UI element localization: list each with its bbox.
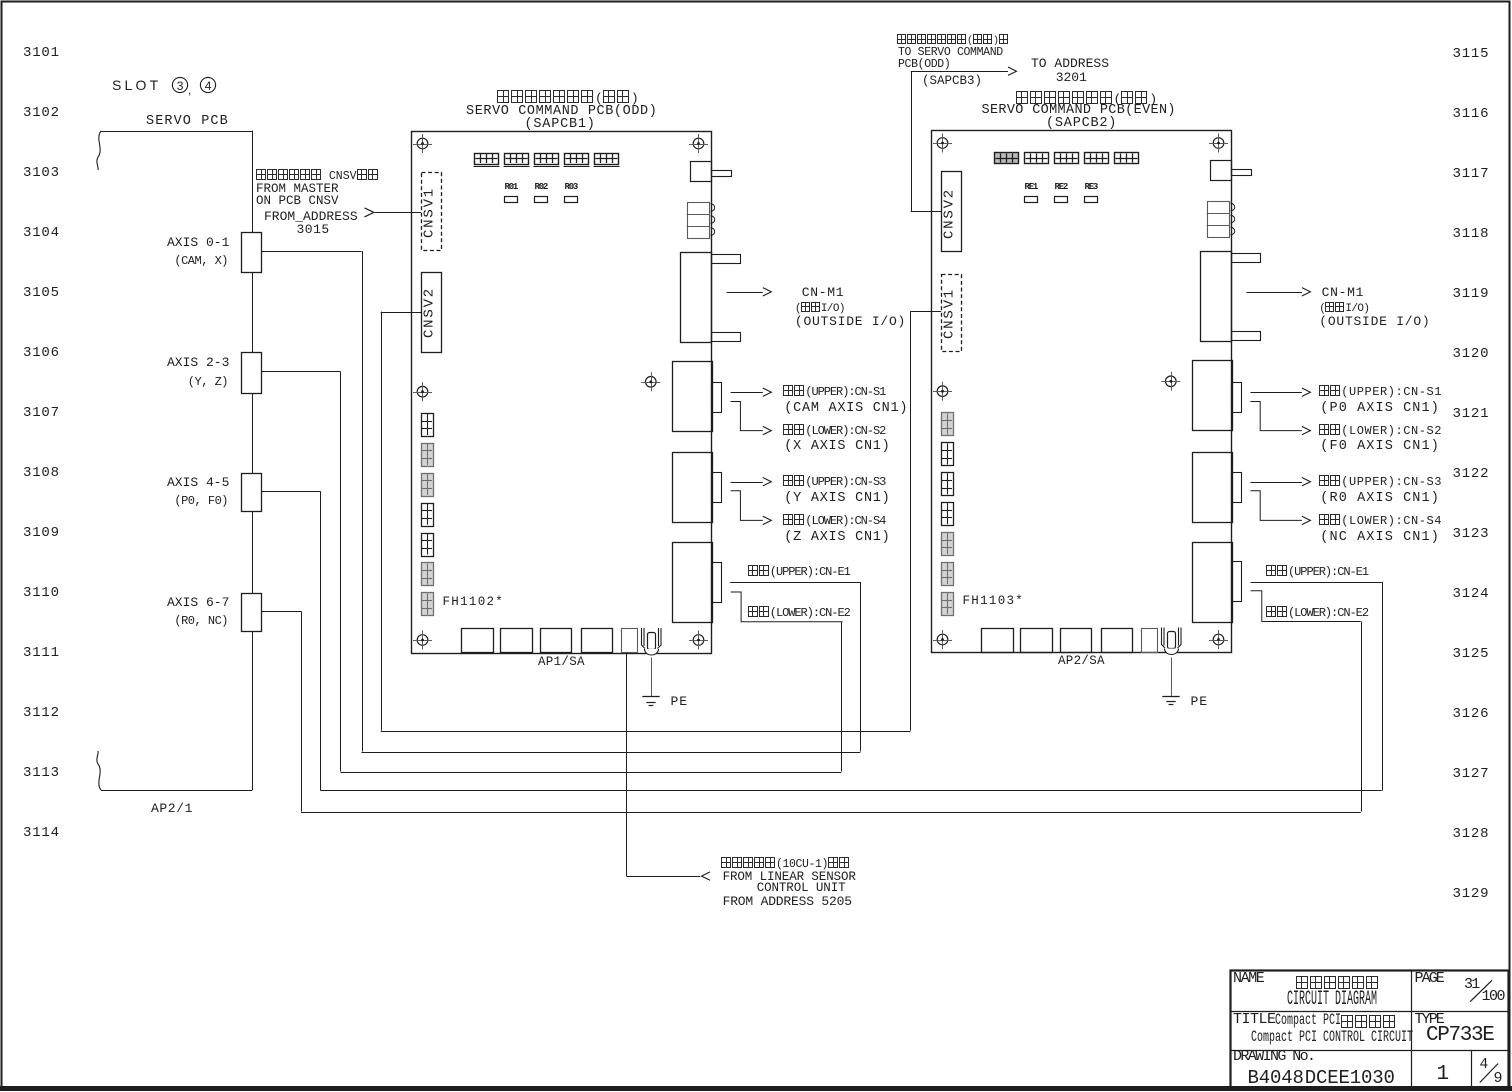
board1 connector CN-S3/S4 body: [673, 453, 722, 523]
note TO SERVO COMMAND: [898, 46, 1003, 60]
board1 label R02: [535, 182, 548, 193]
title block frame: [1231, 971, 1509, 1089]
AXIS 2-3 sub-label (Y,Z): [188, 375, 228, 389]
board2 header (SAPCB2): [1046, 116, 1117, 132]
net number 3103: [23, 165, 60, 182]
circled 3 symbol: [172, 77, 187, 92]
servo pcb bracket top torn-edge mark: [97, 131, 101, 170]
board2 bottom jack: [1162, 628, 1182, 655]
net number 3125: [1453, 646, 1490, 663]
board1 side connector block 5: [422, 534, 434, 557]
AP2/1 label: [151, 801, 193, 816]
title block TITLE label: [1233, 1011, 1276, 1029]
title block page slash: [1470, 980, 1492, 1001]
board1 PE wire: [651, 658, 653, 697]
label (CAM AXIS CN1) board1: [784, 401, 908, 417]
note CONTROL UNIT: [757, 881, 846, 896]
wire/arrow to CN-M1 board1: [727, 288, 772, 296]
title block JP title Compact PCI: [1275, 1011, 1381, 1030]
axis connector trunk wire: [252, 131, 254, 791]
label UPPER CN-E1 board1: [748, 565, 850, 579]
title block sheet 1: [1437, 1063, 1450, 1088]
circled 4 symbol: [200, 77, 215, 92]
board2 LED connector stack: [1207, 202, 1235, 238]
board1 DIP switch block 1: [474, 154, 500, 167]
wire/arrow to CN-S1 board2: [1250, 388, 1310, 396]
title block page total 100: [1482, 988, 1505, 1006]
board1 side connector block 3: [422, 474, 434, 497]
board1 pad under R01: [505, 197, 518, 203]
AXIS 4-5 sub-label (P0,F0): [174, 494, 228, 508]
board1 header (SAPCB1): [525, 117, 596, 133]
note FROM LINEAR SENSOR: [723, 870, 856, 885]
title block DRAWING No. label: [1233, 1048, 1314, 1066]
board1 CNSV2 vertical label: [421, 283, 438, 343]
board2 pad under RE1: [1025, 197, 1038, 203]
board2 pad under RE2: [1055, 197, 1068, 203]
board1 pad under R02: [535, 197, 548, 203]
title block row divider 1: [1231, 1011, 1509, 1013]
board1 bottom connector 4: [582, 629, 613, 653]
net number 3109: [23, 525, 60, 542]
net number 3110: [23, 585, 60, 602]
board1 mounting hole top-left: [413, 134, 432, 153]
net number 3116: [1453, 106, 1490, 123]
board1 mounting hole mid-right: [641, 372, 660, 391]
board2 bottom connector 2: [1021, 629, 1053, 653]
label LOWER CN-E2 board2: [1266, 606, 1368, 620]
board1 side connector block 2: [422, 444, 434, 467]
board2 mounting hole mid-left: [933, 382, 952, 401]
title block page number 31: [1464, 976, 1478, 994]
label (Y AXIS CN1) board1: [784, 491, 890, 507]
label LOWER CN-S2 board2: [1319, 424, 1442, 438]
label UPPER CN-E1 board2: [1266, 565, 1368, 579]
board1 PE label: [671, 694, 689, 709]
net number 3111: [23, 645, 60, 662]
board2 connector CNSV2: [942, 172, 962, 252]
note PCB(ODD): [898, 58, 950, 72]
net number 3104: [23, 225, 60, 242]
board1 PCB outline: [412, 132, 712, 654]
wire/arrow to CN-M1 board2: [1246, 288, 1310, 296]
AXIS 2-3 label: [167, 355, 229, 370]
label (Z AXIS CN1) board1: [784, 530, 890, 546]
board2 mounting hole top-left: [933, 134, 952, 153]
note FROM ADDRESS 5205: [723, 894, 852, 909]
board2 header SERVO COMMAND PCB(EVEN): [982, 103, 1176, 119]
board1 connector CNSV2: [422, 273, 442, 353]
connector AXIS 4-5: [242, 474, 262, 512]
wire/arrow to CN-S1 board1: [731, 388, 772, 396]
board1 DIP switch block 3: [534, 154, 560, 167]
board2 DIP switch block 5: [1115, 153, 1139, 164]
board2 side connector block 6: [942, 563, 954, 586]
board2 bottom connector 1: [982, 629, 1014, 653]
board2 top-right small connector: [1211, 161, 1252, 181]
board2 bottom connector 4: [1102, 629, 1133, 653]
title block row divider 2: [1231, 1050, 1509, 1052]
title block rev 4: [1480, 1057, 1489, 1074]
wire board1 CN-E2 lead: [731, 592, 843, 622]
note 3201: [1056, 70, 1087, 85]
board1 DIP switch block 5: [594, 154, 620, 167]
label (F0 AXIS CN1) board2: [1320, 439, 1440, 455]
title block page/rev divider: [1471, 1050, 1473, 1088]
wire/arrow to CN-S2 board2: [1250, 402, 1310, 435]
title block TYPE label: [1415, 1011, 1443, 1029]
AXIS 0-1 label: [167, 235, 229, 250]
net number 3108: [23, 465, 60, 482]
AXIS 6-7 sub-label (R0,NC): [174, 614, 228, 628]
board2 side connector block 3: [942, 473, 954, 496]
note TO ADDRESS: [1031, 56, 1109, 71]
title block column divider: [1411, 970, 1413, 1088]
board2 DIP switch block 3: [1055, 153, 1079, 164]
board1 ground symbol PE: [642, 697, 659, 706]
wire AXIS 0-1 to CN-E1 bus: [261, 251, 860, 752]
label (R0 AXIS CN1) board2: [1320, 491, 1440, 507]
board2 side connector block 4: [942, 503, 954, 526]
board1 header SERVO COMMAND PCB(ODD): [466, 104, 657, 120]
SERVO PCB label: [146, 114, 229, 130]
board2 side connector block 7: [942, 593, 954, 616]
label UPPER CN-S3 board2: [1319, 475, 1442, 489]
note JP: linear sensor (10CU-1) yori: [721, 857, 850, 872]
AXIS 6-7 label: [167, 595, 229, 610]
net number 3120: [1453, 346, 1490, 363]
board1 bottom thin connector: [622, 629, 638, 653]
board1 connector CNSV1 (dashed): [422, 173, 442, 251]
AXIS 0-1 sub-label (CAM,X): [174, 254, 228, 268]
title block rev 9: [1494, 1070, 1503, 1088]
board2 label RE1: [1025, 182, 1038, 193]
board1 top-right small connector: [691, 162, 732, 182]
net number 3124: [1453, 586, 1490, 603]
net number 3123: [1453, 526, 1490, 543]
label LOWER CN-E2 board1: [748, 606, 850, 620]
board2 side connector block 2: [942, 443, 954, 466]
connector AXIS 2-3: [242, 353, 262, 394]
board1 mounting hole top-right: [689, 134, 708, 153]
note FROM MASTER: [256, 182, 339, 197]
title block PAGE label: [1415, 970, 1443, 988]
board1 side connector block 4: [422, 504, 434, 527]
board2 PCB outline: [932, 131, 1232, 653]
label LOWER CN-S4 board2: [1319, 514, 1442, 528]
label (OUTSIDE I/O) board2: [1319, 314, 1430, 329]
wire AXIS 6-7 to board2 CN-E2 bus: [261, 611, 1361, 812]
label (OUTSIDE I/O) board1: [795, 314, 906, 329]
board1 connector CN-M1 body: [681, 253, 741, 343]
net number 3105: [23, 285, 60, 302]
net number 3102: [23, 105, 60, 122]
net number 3113: [23, 765, 60, 782]
board1 bottom connector 2: [501, 629, 533, 653]
board2 header JP: servo command pcb (even): [1016, 91, 1158, 107]
label (P0 AXIS CN1) board2: [1320, 401, 1440, 417]
board1 DIP switch block 4: [564, 154, 590, 167]
board2 mounting hole top-right: [1209, 134, 1228, 153]
board2 CNSV1 vertical label: [941, 283, 958, 343]
wire/arrow to CN-S4 board1: [731, 491, 772, 525]
SLOT heading: [112, 77, 161, 94]
title block drawing number B4048DCEE1030: [1248, 1067, 1395, 1089]
net number 3128: [1453, 826, 1490, 843]
board1 mounting hole bottom-right: [689, 631, 708, 650]
board1 header JP: servo command pcb (odd): [497, 90, 639, 106]
board2 connector CNSV1 (dashed): [942, 275, 962, 352]
board1 CNSV1 vertical label: [421, 183, 438, 243]
board1 bottom connector 1: [462, 629, 494, 653]
wire into board1 CNSV1: [375, 212, 421, 214]
board1 mounting hole mid-left: [413, 382, 432, 401]
board1 side connector block 6: [422, 563, 434, 586]
board2 connector CN-S3/S4 body: [1193, 453, 1242, 523]
net number 3127: [1453, 766, 1490, 783]
label (X AXIS CN1) board1: [784, 439, 890, 455]
wire board1 CNSV2 to board2 CNSV1 bus: [381, 311, 942, 731]
board2 connector CN-S1/S2 body: [1193, 361, 1242, 431]
title block CIRCUIT DIAGRAM: [1287, 988, 1467, 1012]
board2 PE wire: [1171, 658, 1173, 696]
wire board1 CN-E1 lead: [730, 582, 861, 584]
board2 mounting hole bottom-right: [1209, 630, 1228, 649]
label UPPER CN-S3 board1: [783, 475, 885, 489]
note (SAPCB3): [922, 74, 982, 89]
board2 label AP2/SA: [1058, 654, 1105, 669]
board2 side connector block 1: [942, 413, 954, 436]
board1 side connector block 7: [422, 593, 434, 616]
wire to SAPCB3 with arrowhead: [911, 67, 1017, 212]
board2 bottom thin connector: [1142, 629, 1158, 653]
board2 label RE2: [1055, 182, 1068, 193]
board1 label R01: [505, 182, 518, 193]
board2 mounting hole mid-right: [1161, 372, 1180, 391]
circled 4 digit: [205, 79, 212, 93]
label (soto I/O) board2: [1319, 302, 1369, 316]
label CN-M1 board1: [802, 285, 845, 300]
circled 3 digit: [177, 79, 184, 93]
board1 label FH1102*: [443, 595, 505, 610]
net number 3101: [23, 45, 60, 62]
title block type CP733E: [1426, 1024, 1494, 1049]
net number 3106: [23, 345, 60, 362]
label UPPER CN-S1 board1: [783, 385, 885, 399]
AXIS 4-5 label: [167, 475, 229, 490]
note JP: to servo command pcb (odd): [897, 34, 1009, 48]
connector AXIS 6-7: [242, 594, 262, 632]
title block JP name: denki kairo senzu: [1296, 976, 1380, 992]
note 3015: [297, 222, 330, 237]
wire/arrow to CN-S2 board1: [731, 402, 772, 435]
net number 3107: [23, 405, 60, 422]
note FROM_ADDRESS: [264, 209, 358, 224]
title block JP title seigyo kairo boxes: [1341, 1015, 1397, 1033]
board1 DIP switch block 2: [504, 154, 530, 167]
label (NC AXIS CN1) board2: [1320, 530, 1440, 546]
board2 ground symbol PE: [1162, 697, 1179, 705]
wire AXIS 4-5 to board2 CN-E1 bus: [261, 491, 1382, 790]
net number 3118: [1453, 226, 1490, 243]
board2 DIP switch block 2: [1025, 153, 1049, 164]
board1 side connector block 1: [422, 414, 434, 437]
title block Compact PCI CONTROL CIRCUIT: [1251, 1028, 1510, 1047]
board2 connector CN-E1/E2 body: [1193, 543, 1242, 623]
board2 bottom connector 3: [1061, 629, 1092, 653]
board1 mounting hole bottom-left: [413, 631, 432, 650]
board1 label AP1/SA: [538, 655, 585, 670]
board2 DIP switch block 1: [995, 153, 1019, 164]
wire board2 CN-E2 lead: [1251, 591, 1361, 622]
wire/arrow to CN-S3 board2: [1250, 478, 1310, 486]
board2 DIP switch block 4: [1085, 153, 1109, 164]
wire from linear sensor unit: [626, 653, 710, 881]
board2 pad under RE3: [1085, 197, 1098, 203]
label LOWER CN-S2 board1: [783, 424, 885, 438]
board2 label FH1103*: [963, 594, 1025, 609]
net number 3117: [1453, 166, 1490, 183]
servo pcb bracket bottom torn-edge mark: [97, 751, 101, 790]
wire/arrow to CN-S4 board2: [1250, 491, 1310, 525]
wire AXIS 2-3 to CN-E2 bus: [261, 371, 841, 772]
comma between circles: [188, 83, 191, 97]
title block NAME label: [1233, 970, 1263, 988]
board2 label RE3: [1085, 182, 1098, 193]
label CN-M1 board2: [1322, 285, 1365, 300]
servo pcb bracket top line: [101, 131, 252, 133]
title block rev slash: [1480, 1064, 1498, 1083]
board1 connector CN-E1/E2 body: [673, 543, 722, 623]
board1 pad under R03: [565, 197, 578, 203]
board1 connector CN-S1/S2 body: [673, 362, 722, 432]
net number 3129: [1453, 886, 1490, 903]
wire board2 CN-E1 lead: [1251, 582, 1382, 584]
board2 connector CN-M1 body: [1201, 252, 1261, 342]
arrowhead into CNSV1: [365, 208, 374, 217]
note ON PCB CNSV: [256, 194, 339, 209]
net number 3114: [23, 825, 60, 842]
note JP: master prep pcb CNSV yori: [256, 169, 379, 184]
board2 side connector block 5: [942, 533, 954, 556]
net number 3121: [1453, 406, 1490, 423]
board2 PE label: [1191, 694, 1209, 709]
board1 bottom connector 3: [541, 629, 572, 653]
label LOWER CN-S4 board1: [783, 514, 885, 528]
board2 CNSV2 vertical label: [941, 183, 958, 243]
net number 3119: [1453, 286, 1490, 303]
wire/arrow to CN-S3 board1: [731, 478, 772, 486]
net number 3112: [23, 705, 60, 722]
board1 label R03: [565, 182, 578, 193]
label UPPER CN-S1 board2: [1319, 385, 1442, 399]
connector AXIS 0-1: [242, 233, 262, 273]
label (soto I/O) board1: [795, 302, 845, 316]
board1 bottom jack: [642, 628, 662, 655]
board1 LED connector stack: [687, 203, 715, 239]
board2 mounting hole bottom-left: [933, 630, 952, 649]
net number 3126: [1453, 706, 1490, 723]
net number 3122: [1453, 466, 1490, 483]
net number 3115: [1453, 46, 1490, 63]
servo pcb bracket bottom line (AP2/1): [101, 790, 252, 792]
